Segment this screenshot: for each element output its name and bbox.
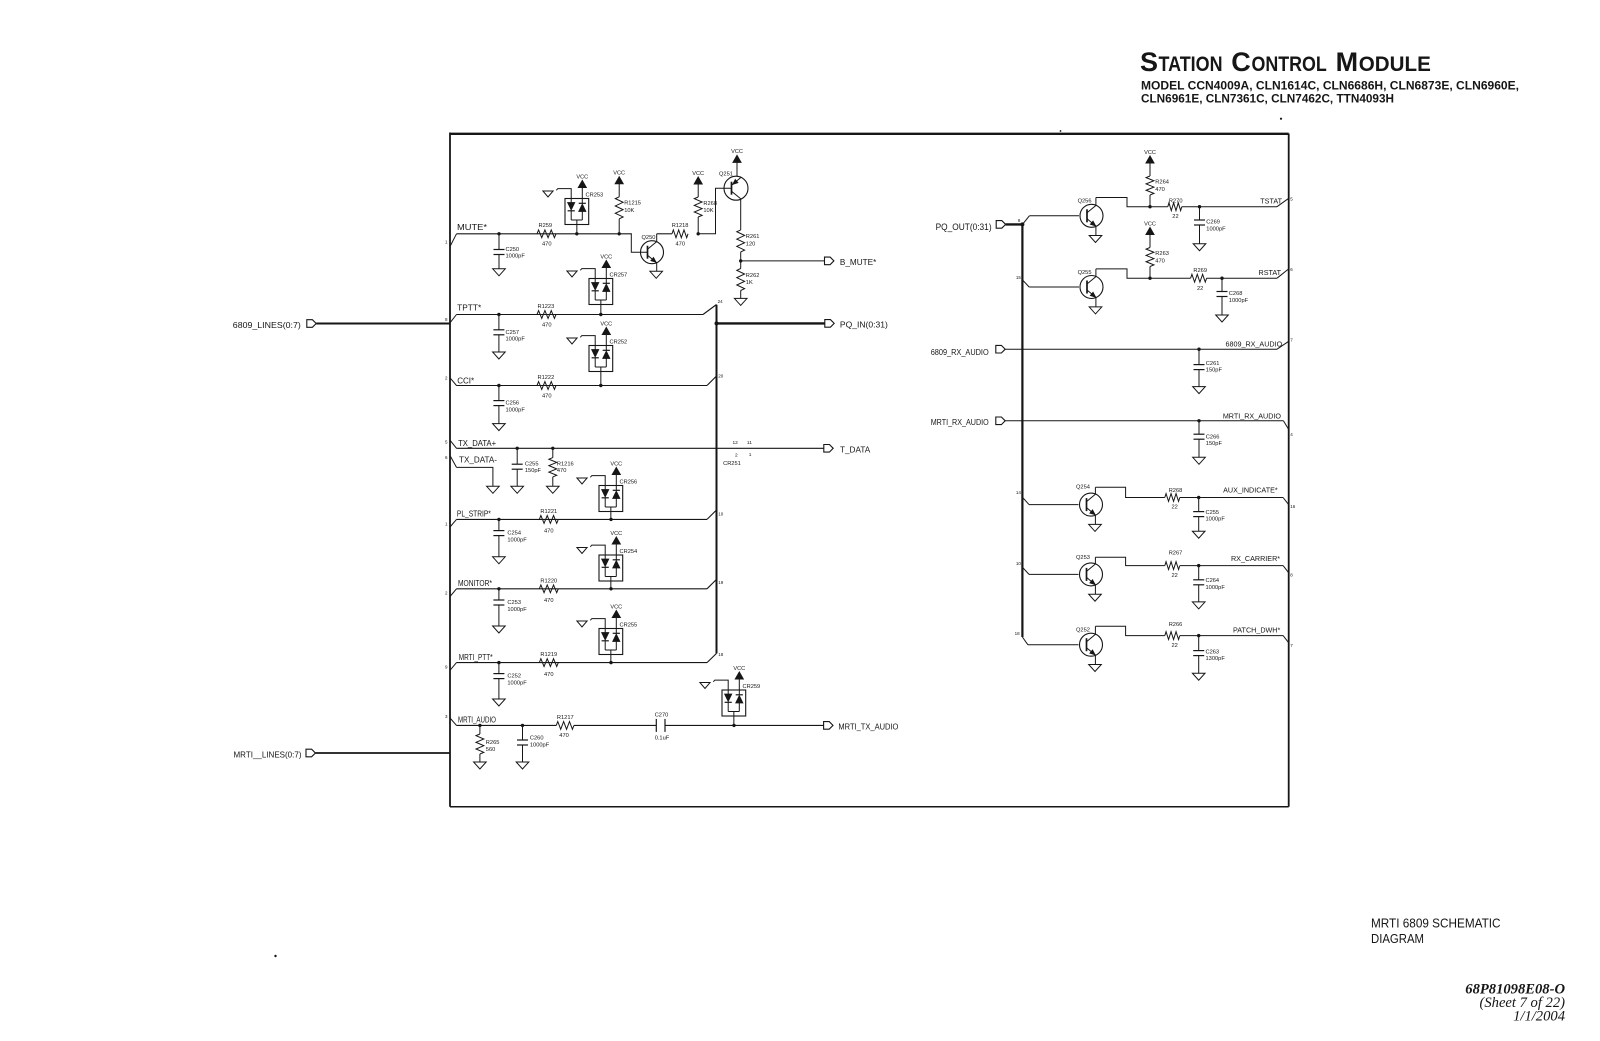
diode pack CR254 — [599, 549, 637, 589]
wire bus to Q255 base — [1016, 275, 1079, 287]
VCC arrow CR256 — [610, 461, 622, 485]
svg-text:PQ_OUT(0:31): PQ_OUT(0:31) — [936, 222, 992, 232]
input port 6809_LINES(0:7) — [233, 320, 316, 331]
ground C255 — [511, 486, 524, 493]
svg-text:19: 19 — [718, 580, 724, 585]
label RSTAT — [1259, 268, 1282, 277]
svg-text:6809_LINES(0:7): 6809_LINES(0:7) — [233, 320, 301, 330]
VCC arrow CR259 — [733, 666, 745, 690]
diode pack CR256 — [599, 480, 637, 520]
svg-text:1000pF: 1000pF — [507, 680, 527, 686]
wire bus to Q253 base — [1016, 561, 1079, 575]
svg-text:1000pF: 1000pF — [506, 407, 526, 413]
capacitor C255 — [512, 448, 542, 486]
VCC arrow CR257 — [600, 254, 612, 278]
svg-text:MONITOR*: MONITOR* — [458, 579, 493, 588]
resistor R268 output — [1165, 488, 1183, 511]
title: model list — [1141, 79, 1519, 106]
svg-text:470: 470 — [557, 468, 567, 474]
svg-text:CR254: CR254 — [620, 549, 638, 555]
label RX_CARRIER* — [1231, 554, 1280, 563]
svg-text:470: 470 — [542, 241, 552, 247]
output port B_MUTE* — [825, 257, 878, 267]
svg-text:S: S — [1140, 47, 1158, 77]
svg-text:1000pF: 1000pF — [1206, 585, 1226, 591]
svg-text:R267: R267 — [1169, 550, 1183, 556]
svg-text:10: 10 — [1016, 561, 1022, 566]
wire Q251 collector to R261 — [740, 199, 742, 230]
svg-text:22: 22 — [1172, 573, 1178, 579]
node MRTI_AUDIO entry — [445, 714, 496, 726]
wire MRTI_PTT to bus — [707, 652, 724, 663]
resistor R267 — [1165, 550, 1183, 578]
wire Q254 collector to AUX line — [1095, 487, 1164, 497]
ground C269 — [1193, 244, 1206, 251]
svg-text:C255: C255 — [1206, 510, 1220, 516]
svg-text:20: 20 — [718, 373, 724, 378]
wire MONITOR row — [457, 587, 708, 590]
svg-text:VCC: VCC — [610, 531, 622, 537]
svg-text:22: 22 — [1172, 643, 1178, 649]
wire bus to Q256 base — [1022, 216, 1079, 225]
node TPTT* entry — [445, 303, 482, 322]
capacitor C261 — [1194, 349, 1223, 386]
ground R1216 — [547, 486, 560, 493]
ground C253 — [493, 626, 506, 633]
resistor R1223 — [537, 304, 556, 329]
wire RSTAT segment — [1150, 277, 1191, 279]
footer: sheet number — [1465, 982, 1565, 1025]
VCC arrow CR255 — [610, 604, 622, 628]
wire PQ_OUT to bus — [1006, 218, 1025, 227]
svg-text:6809_RX_AUDIO: 6809_RX_AUDIO — [1225, 339, 1282, 348]
svg-text:Q251: Q251 — [719, 172, 733, 178]
svg-text:C255: C255 — [525, 461, 539, 467]
svg-text:VCC: VCC — [1144, 221, 1156, 227]
svg-text:TSTAT: TSTAT — [1260, 196, 1282, 205]
svg-text:MRTI_RX_AUDIO: MRTI_RX_AUDIO — [1223, 411, 1282, 420]
svg-text:CR255: CR255 — [620, 623, 638, 629]
svg-text:470: 470 — [676, 241, 686, 247]
svg-text:11: 11 — [747, 440, 752, 446]
resistor R266 — [1165, 622, 1183, 649]
resistor R1215 pull-up — [615, 197, 641, 234]
resistor R265 — [476, 725, 499, 762]
svg-text:Q252: Q252 — [1076, 628, 1090, 634]
wire R266 to border — [1180, 634, 1293, 648]
svg-text:C270: C270 — [655, 712, 669, 718]
svg-text:Q253: Q253 — [1076, 555, 1090, 561]
svg-text:C266: C266 — [1206, 434, 1220, 440]
resistor R264 pull-up — [1146, 176, 1169, 207]
svg-text:C257: C257 — [506, 330, 520, 336]
diode pack CR255 — [599, 623, 637, 663]
svg-text:CCI*: CCI* — [457, 376, 475, 385]
node MONITOR* entry — [445, 579, 493, 597]
svg-text:16: 16 — [1290, 504, 1296, 509]
diode pack CR252 — [589, 340, 627, 386]
ground C263 — [1192, 673, 1205, 680]
ground CR252 — [567, 336, 595, 346]
input port 6809_RX_AUDIO — [931, 345, 1006, 357]
VCC arrow R268 — [692, 171, 704, 197]
ground Q255 emitter — [1089, 307, 1102, 314]
svg-text:VCC: VCC — [733, 666, 745, 672]
capacitor C252 — [493, 663, 527, 699]
svg-text:MRTI_TX_AUDIO: MRTI_TX_AUDIO — [838, 723, 898, 732]
capacitor C264 — [1193, 566, 1225, 602]
wire MRTI__LINES bus to border — [315, 752, 450, 754]
node PL_STRIP* entry — [445, 510, 492, 527]
svg-text:470: 470 — [544, 529, 554, 535]
ground Q253 emitter — [1089, 594, 1102, 601]
node MUTE* entry — [445, 223, 488, 246]
ground C264 — [1192, 602, 1205, 609]
svg-text:MODEL CCN4009A, CLN1614C, CLN6: MODEL CCN4009A, CLN1614C, CLN6686H, CLN6… — [1141, 79, 1519, 93]
svg-text:R1223: R1223 — [538, 304, 555, 310]
svg-text:MRTI__LINES(0:7): MRTI__LINES(0:7) — [234, 749, 302, 759]
resistor R259 — [537, 223, 556, 247]
label 6809_RX_AUDIO right — [1225, 339, 1282, 348]
svg-text:24: 24 — [718, 299, 724, 304]
svg-text:M: M — [1336, 47, 1359, 77]
wire Q252 collector to PATCH line — [1095, 626, 1164, 635]
scan speck — [274, 118, 1282, 958]
VCC arrow CR254 — [610, 531, 622, 555]
svg-text:470: 470 — [544, 598, 554, 604]
transistor Q252 — [1076, 626, 1103, 664]
svg-text:VCC: VCC — [613, 171, 625, 177]
diode pack CR259 — [722, 684, 760, 725]
wire MRTI_RX_AUDIO — [1005, 419, 1293, 437]
ground Q250 emitter — [650, 271, 663, 278]
capacitor C266 — [1194, 421, 1223, 458]
wire R270 to border — [1182, 196, 1293, 208]
wire TX_DATA- to ground — [457, 467, 493, 486]
svg-text:Q256: Q256 — [1078, 199, 1092, 205]
svg-text:1K: 1K — [746, 280, 753, 286]
svg-text:CR257: CR257 — [610, 273, 628, 279]
input port PQ_OUT(0:31) — [936, 221, 1006, 232]
ground C266 — [1193, 457, 1206, 464]
svg-text:14: 14 — [1016, 490, 1022, 495]
svg-text:TATION: TATION — [1159, 52, 1223, 76]
wire CCI row — [457, 384, 708, 387]
resistor R268 pull-up — [694, 197, 717, 234]
svg-text:C263: C263 — [1206, 649, 1220, 655]
ground CR256 — [577, 476, 605, 486]
svg-text:1000pF: 1000pF — [507, 607, 527, 613]
transistor Q255 — [1078, 269, 1103, 307]
svg-text:C: C — [1231, 47, 1251, 77]
wire TPTT to bus — [703, 299, 723, 314]
svg-text:Q254: Q254 — [1076, 484, 1090, 490]
wire Q256 collector to TSTAT line — [1096, 198, 1150, 207]
wire bus to Q254 base — [1016, 490, 1079, 504]
ground CR259 — [700, 680, 728, 690]
wire MONITOR to bus — [707, 579, 724, 588]
svg-text:R1221: R1221 — [540, 509, 557, 515]
wire R267 to border — [1180, 564, 1293, 577]
capacitor C260 — [517, 725, 550, 762]
svg-text:AUX_INDICATE*: AUX_INDICATE* — [1223, 485, 1278, 494]
caption: MRTI 6809 SCHEMATIC DIAGRAM — [1371, 917, 1501, 946]
schematic border frame — [450, 133, 1289, 807]
ground C260 — [516, 762, 529, 769]
svg-text:R263: R263 — [1155, 251, 1169, 257]
svg-text:15: 15 — [1016, 275, 1022, 280]
diode pack CR257 — [589, 273, 627, 315]
output port PQ_IN(0:31) — [825, 320, 888, 330]
wire R268 to border — [1180, 496, 1296, 509]
VCC arrow R263 — [1144, 221, 1156, 247]
input port MRTI_RX_AUDIO — [931, 417, 1006, 427]
resistor R1221 — [539, 509, 558, 535]
svg-text:Q250: Q250 — [642, 235, 656, 241]
svg-text:VCC: VCC — [692, 171, 704, 177]
svg-text:TX_DATA+: TX_DATA+ — [458, 439, 496, 448]
svg-text:150pF: 150pF — [1206, 441, 1223, 447]
svg-text:MRTI_PTT*: MRTI_PTT* — [459, 653, 494, 662]
ground C255 output — [1192, 531, 1205, 538]
svg-text:TX_DATA-: TX_DATA- — [459, 456, 497, 465]
svg-text:Q255: Q255 — [1078, 270, 1092, 276]
transistor Q254 — [1076, 484, 1103, 524]
capacitor C254 — [493, 519, 527, 556]
resistor R1220 — [539, 578, 558, 604]
svg-text:22: 22 — [1172, 505, 1178, 511]
svg-text:12: 12 — [733, 440, 739, 446]
svg-text:1/1/2004: 1/1/2004 — [1513, 1009, 1565, 1025]
svg-text:C254: C254 — [507, 531, 521, 537]
svg-text:CR256: CR256 — [620, 480, 638, 486]
svg-text:470: 470 — [542, 323, 552, 329]
svg-text:C269: C269 — [1206, 220, 1220, 226]
resistor R1219 — [539, 652, 558, 678]
ground C254 — [493, 557, 506, 564]
resistor R1222 — [537, 375, 556, 400]
diode pack CR253 — [565, 193, 603, 234]
ground CR257 — [567, 269, 595, 279]
svg-text:T_DATA: T_DATA — [840, 445, 871, 454]
output port MRTI_TX_AUDIO — [824, 722, 899, 732]
capacitor C256 — [493, 386, 525, 424]
svg-text:R264: R264 — [1155, 180, 1169, 186]
node TX_DATA- entry — [445, 455, 497, 467]
svg-text:C253: C253 — [507, 600, 521, 606]
svg-text:470: 470 — [1155, 258, 1165, 264]
svg-text:R259: R259 — [539, 223, 553, 229]
wire MRTI_PTT row — [457, 661, 708, 664]
svg-text:VCC: VCC — [610, 461, 622, 467]
VCC arrow CR253 — [576, 174, 588, 198]
capacitor C270 series — [655, 712, 670, 741]
svg-text:1300pF: 1300pF — [1206, 656, 1226, 662]
svg-text:2: 2 — [735, 452, 738, 458]
capacitor C269 — [1194, 207, 1226, 244]
svg-text:1: 1 — [749, 452, 752, 458]
ground TX_DATA- — [487, 486, 500, 493]
node TX_DATA+ entry — [445, 439, 496, 448]
capacitor C268 — [1217, 278, 1249, 315]
svg-text:C256: C256 — [506, 401, 520, 407]
svg-text:CR259: CR259 — [743, 684, 761, 690]
svg-text:18: 18 — [718, 652, 724, 657]
svg-text:B_MUTE*: B_MUTE* — [840, 258, 877, 267]
svg-text:R1218: R1218 — [672, 223, 689, 229]
svg-text:560: 560 — [486, 747, 496, 753]
transistor Q251 — [719, 172, 748, 201]
ground Q254 emitter — [1089, 524, 1102, 531]
svg-text:R1219: R1219 — [540, 652, 557, 658]
resistor R269 — [1191, 268, 1207, 292]
svg-text:RX_CARRIER*: RX_CARRIER* — [1231, 554, 1280, 563]
resistor R270 — [1168, 198, 1183, 220]
svg-text:1000pF: 1000pF — [1229, 298, 1249, 304]
svg-text:R1215: R1215 — [624, 201, 641, 207]
resistor R1216 — [549, 448, 574, 486]
wire CCI to bus — [707, 373, 724, 385]
svg-text:TPTT*: TPTT* — [457, 303, 482, 312]
ground C250 — [493, 269, 506, 276]
label TSTAT — [1260, 196, 1282, 205]
svg-text:CR252: CR252 — [610, 340, 628, 346]
ground Q256 emitter — [1089, 236, 1102, 243]
svg-text:DIAGRAM: DIAGRAM — [1371, 932, 1424, 946]
ground C261 — [1193, 387, 1206, 394]
VCC arrow CR252 — [600, 321, 612, 345]
svg-text:470: 470 — [544, 672, 554, 678]
VCC arrow R264 — [1144, 150, 1156, 176]
svg-text:6809_RX_AUDIO: 6809_RX_AUDIO — [931, 348, 989, 357]
svg-text:470: 470 — [559, 733, 569, 739]
svg-text:R270: R270 — [1169, 198, 1183, 204]
svg-text:C268: C268 — [1229, 291, 1243, 297]
svg-text:22: 22 — [1197, 286, 1203, 292]
svg-text:0.1uF: 0.1uF — [655, 736, 670, 742]
node MRTI_PTT* entry — [445, 653, 493, 671]
resistor R1217 — [556, 715, 574, 739]
resistor R261 — [737, 230, 760, 261]
resistor R263 pull-up — [1146, 248, 1169, 279]
transistor Q256 — [1078, 198, 1103, 236]
ground C252 — [493, 699, 506, 706]
ground CR255 — [577, 619, 605, 629]
wire to B_MUTE* output — [741, 260, 825, 262]
svg-text:CR251: CR251 — [723, 461, 741, 467]
label MRTI_RX_AUDIO right — [1223, 411, 1282, 420]
wire PL_STRIP row — [457, 518, 708, 521]
svg-text:C264: C264 — [1206, 578, 1220, 584]
svg-text:470: 470 — [1155, 187, 1165, 193]
ground R265 — [474, 762, 487, 769]
svg-text:C250: C250 — [506, 247, 520, 253]
svg-text:C261: C261 — [1206, 361, 1220, 367]
svg-text:CR253: CR253 — [586, 193, 604, 199]
wire PL_STRIP to bus — [707, 510, 724, 519]
svg-text:R269: R269 — [1193, 268, 1207, 274]
svg-text:R266: R266 — [1169, 622, 1183, 628]
svg-text:VCC: VCC — [610, 604, 622, 610]
ground C268 — [1216, 315, 1229, 322]
svg-text:R261: R261 — [746, 234, 760, 240]
VCC arrow Q251 — [731, 149, 743, 176]
label AUX_INDICATE* — [1223, 485, 1278, 494]
ground CR254 — [577, 545, 605, 555]
input port MRTI__LINES(0:7) — [234, 749, 316, 759]
svg-text:PL_STRIP*: PL_STRIP* — [457, 510, 492, 519]
svg-text:PQ_IN(0:31): PQ_IN(0:31) — [840, 320, 888, 330]
transistor Q250 — [641, 234, 664, 271]
svg-text:R1222: R1222 — [538, 375, 555, 381]
capacitor C257 — [493, 315, 525, 353]
wire branch to Q250 base — [631, 234, 647, 252]
svg-text:PATCH_DWH*: PATCH_DWH* — [1233, 625, 1280, 634]
wire Q255 collector to RSTAT line — [1096, 269, 1150, 278]
svg-text:MRTI 6809 SCHEMATIC: MRTI 6809 SCHEMATIC — [1371, 917, 1501, 931]
wire TPTT row — [457, 313, 704, 316]
bus PQ_OUT vertical — [1021, 224, 1023, 637]
svg-text:R1220: R1220 — [540, 578, 557, 584]
svg-text:R1216: R1216 — [557, 461, 574, 467]
svg-text:MRTI_AUDIO: MRTI_AUDIO — [458, 715, 496, 724]
wire MUTE row — [457, 232, 673, 235]
svg-text:MUTE*: MUTE* — [457, 223, 488, 232]
svg-text:VCC: VCC — [600, 321, 612, 327]
svg-text:1000pF: 1000pF — [1206, 226, 1226, 232]
svg-text:ODULE: ODULE — [1359, 52, 1431, 76]
capacitor C263 — [1193, 636, 1225, 674]
svg-text:CLN6961E, CLN7361C, CLN7462C,: CLN6961E, CLN7361C, CLN7462C, TTN4093H — [1141, 92, 1394, 106]
VCC arrow R1215 — [613, 171, 625, 197]
svg-text:10: 10 — [718, 512, 724, 517]
svg-text:R265: R265 — [486, 740, 500, 746]
svg-text:VCC: VCC — [1144, 150, 1156, 156]
svg-text:R268: R268 — [703, 201, 717, 207]
junction R263/RSTAT — [1148, 277, 1151, 280]
svg-text:R262: R262 — [746, 273, 760, 279]
svg-text:VCC: VCC — [600, 254, 612, 260]
ground C257 — [493, 352, 506, 359]
wire 6809_LINES bus to border — [316, 323, 450, 325]
svg-text:22: 22 — [1172, 214, 1178, 220]
wire MRTI_AUDIO row — [457, 724, 825, 727]
transistor Q253 — [1076, 555, 1103, 594]
svg-text:1000pF: 1000pF — [530, 742, 550, 748]
title: STATION CONTROL MODULE — [1140, 47, 1431, 77]
wire 6809_RX_AUDIO — [1005, 338, 1293, 351]
junction R264/TSTAT — [1148, 205, 1151, 208]
wire to Q251 base — [698, 188, 731, 234]
device CR251 pin numbers — [723, 440, 752, 467]
svg-text:150pF: 150pF — [525, 468, 542, 474]
label PATCH_DWH* — [1233, 625, 1280, 634]
capacitor C255 output — [1193, 498, 1225, 532]
junction R268 — [697, 232, 700, 235]
resistor R1218 — [672, 223, 689, 247]
svg-text:10K: 10K — [624, 208, 634, 214]
ground CR253 — [543, 189, 571, 199]
wire Q253 collector to RX_CARRIER line — [1095, 557, 1164, 565]
node B_MUTE junction — [739, 259, 742, 262]
ground C256 — [493, 424, 506, 431]
svg-text:470: 470 — [542, 394, 552, 400]
svg-text:1000pF: 1000pF — [1206, 517, 1226, 523]
svg-text:10K: 10K — [703, 208, 713, 214]
ground Q252 emitter — [1089, 665, 1102, 672]
svg-text:C252: C252 — [507, 674, 521, 680]
svg-text:R1217: R1217 — [557, 715, 574, 721]
